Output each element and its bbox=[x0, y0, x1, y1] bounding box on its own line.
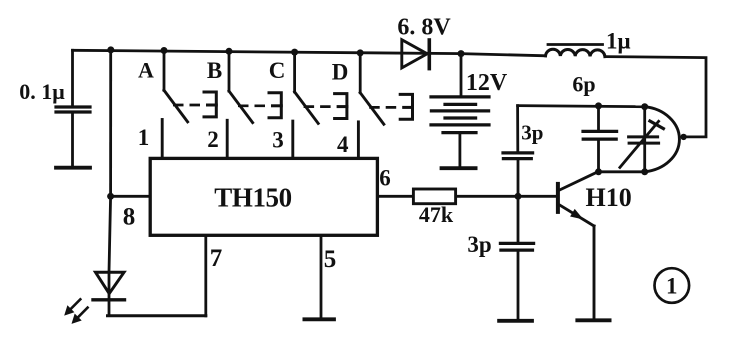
svg-text:47k: 47k bbox=[419, 202, 454, 227]
svg-text:A: A bbox=[138, 58, 154, 83]
svg-text:3p: 3p bbox=[467, 232, 491, 257]
svg-text:3p: 3p bbox=[521, 121, 543, 145]
svg-text:3: 3 bbox=[272, 128, 284, 153]
svg-text:TH150: TH150 bbox=[214, 183, 292, 213]
svg-text:2: 2 bbox=[207, 127, 219, 152]
svg-text:D: D bbox=[332, 60, 349, 85]
svg-text:5: 5 bbox=[324, 246, 337, 273]
svg-text:1μ: 1μ bbox=[606, 29, 631, 54]
svg-text:6: 6 bbox=[379, 166, 391, 191]
svg-text:1: 1 bbox=[666, 274, 678, 299]
svg-text:12V: 12V bbox=[466, 70, 508, 96]
svg-text:C: C bbox=[269, 58, 286, 83]
svg-text:6. 8V: 6. 8V bbox=[397, 15, 451, 41]
svg-text:8: 8 bbox=[123, 204, 136, 231]
svg-text:7: 7 bbox=[210, 245, 223, 272]
svg-text:4: 4 bbox=[337, 132, 349, 157]
svg-text:0. 1μ: 0. 1μ bbox=[19, 79, 65, 104]
svg-text:6p: 6p bbox=[572, 72, 595, 97]
svg-text:B: B bbox=[207, 58, 222, 83]
svg-text:1: 1 bbox=[138, 125, 150, 150]
svg-text:H10: H10 bbox=[586, 183, 632, 212]
